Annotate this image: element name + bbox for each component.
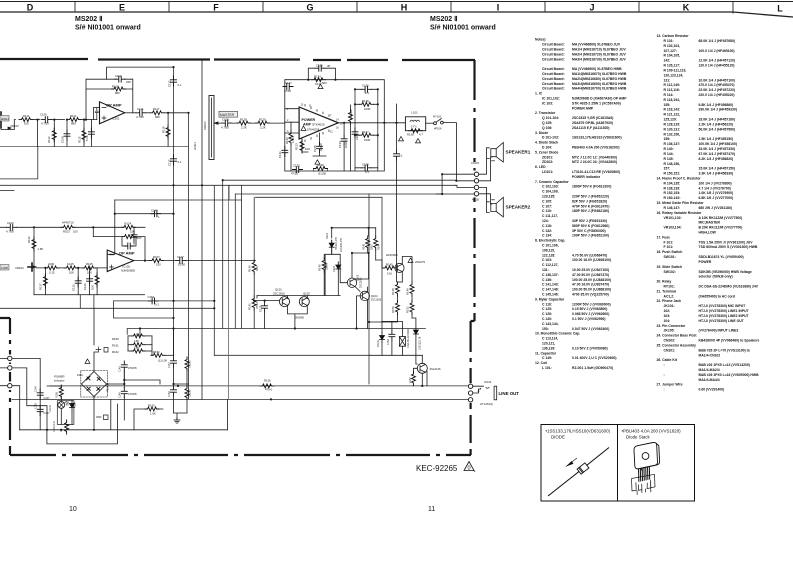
svg-text:R144: R144 bbox=[378, 243, 381, 250]
svg-text:0.068 50V J (VV062600): 0.068 50V J (VV062600) bbox=[572, 312, 609, 316]
wire ch2 plus input line bbox=[36, 267, 107, 269]
svg-text:C 138,137:: C 138,137: bbox=[542, 273, 559, 277]
wire bus y180 bbox=[223, 179, 457, 181]
svg-text:R 113,116:: R 113,116: bbox=[664, 88, 680, 92]
resistor R157 vertical bbox=[412, 372, 416, 386]
svg-text:HTJ-064(1): HTJ-064(1) bbox=[480, 402, 493, 406]
svg-text:680: 680 bbox=[155, 115, 160, 119]
svg-text:R129: R129 bbox=[259, 118, 266, 122]
svg-text:4700 35.0V (VQ225700): 4700 35.0V (VQ225700) bbox=[572, 293, 609, 297]
svg-text:22. Phone Jack: 22. Phone Jack bbox=[657, 299, 682, 303]
svg-text:POWER: POWER bbox=[302, 118, 316, 122]
wire -B bbox=[93, 397, 95, 430]
wire from power amp to L101 bbox=[384, 122, 405, 124]
pin leads left bbox=[285, 109, 299, 133]
wire ch1 ground bus bbox=[0, 145, 189, 147]
svg-text:100: 100 bbox=[24, 122, 29, 126]
svg-text:100: 100 bbox=[73, 230, 78, 234]
diode D101 vertical bbox=[329, 240, 334, 250]
svg-text:C129: C129 bbox=[356, 133, 359, 140]
right border dash-dot vertical bbox=[473, 60, 475, 321]
svg-text:POWER AMP: POWER AMP bbox=[572, 106, 594, 110]
resistor R115 vertical bbox=[83, 120, 85, 147]
wire to op-amp minus bbox=[91, 108, 99, 120]
svg-text:AMP: AMP bbox=[303, 123, 312, 127]
svg-text:5. Zener Diode: 5. Zener Diode bbox=[535, 150, 558, 154]
svg-text:R114: R114 bbox=[70, 114, 77, 118]
svg-text:C 149:: C 149: bbox=[542, 356, 552, 360]
wire output from apex bbox=[338, 122, 384, 124]
resistor R160 bbox=[128, 335, 131, 337]
ruler ticks bbox=[75, 2, 733, 14]
svg-text:6. LED: 6. LED bbox=[535, 165, 546, 169]
transistor Q105 bbox=[395, 263, 404, 272]
svg-text:27. Jumper Wire: 27. Jumper Wire bbox=[657, 383, 683, 387]
svg-text:R160: R160 bbox=[112, 337, 119, 341]
svg-text:18.0K 1/4 J (HF457180): 18.0K 1/4 J (HF457180) bbox=[699, 118, 736, 122]
resistor R117 bbox=[150, 111, 164, 115]
svg-text:1.0K: 1.0K bbox=[150, 412, 156, 416]
svg-text:C114: C114 bbox=[137, 107, 144, 111]
svg-text:NJM2068D D (XA667A30) OP AMP: NJM2068D D (XA667A30) OP AMP bbox=[572, 97, 627, 101]
warning triangle left bbox=[399, 137, 404, 141]
svg-text:2SC1815: 2SC1815 bbox=[360, 277, 363, 288]
svg-text:100P 50V J (FG652100): 100P 50V J (FG652100) bbox=[572, 234, 609, 238]
svg-text:MASTER: MASTER bbox=[220, 113, 235, 117]
svg-text:HTJ-0 (VV278300) MIC INPUT: HTJ-0 (VV278300) MIC INPUT bbox=[699, 304, 747, 308]
svg-text:1200P 50V J (VV060000): 1200P 50V J (VV060000) bbox=[572, 302, 611, 306]
svg-text:Diode Stack: Diode Stack bbox=[626, 435, 650, 440]
node junction x37.5 bbox=[37, 120, 39, 147]
svg-text:MA3/4(MK816690) XL67BEO HWB: MA3/4(MK816690) XL67BEO HWB bbox=[572, 82, 627, 86]
svg-text:18. Push Switch: 18. Push Switch bbox=[657, 250, 683, 254]
svg-text:100Ω/4W: 100Ω/4W bbox=[350, 109, 353, 120]
svg-text:26. Cable Kit: 26. Cable Kit bbox=[657, 358, 678, 362]
wire base line Q101 bbox=[254, 300, 279, 302]
svg-text:CN103: CN103 bbox=[471, 162, 479, 165]
bottom bracket view bbox=[632, 474, 656, 491]
svg-text:155:: 155: bbox=[664, 103, 671, 107]
minus mark sp1 bbox=[492, 160, 495, 162]
svg-text:16. Rotary Variable Resistor: 16. Rotary Variable Resistor bbox=[657, 211, 703, 215]
svg-text:120,123,124,: 120,123,124, bbox=[664, 73, 684, 77]
node x34 vertical bbox=[33, 227, 35, 294]
svg-text:MA1/4 (MK816710) XL67BEO JUV: MA1/4 (MK816710) XL67BEO JUV bbox=[572, 48, 626, 52]
svg-text:R 118,194,: R 118,194, bbox=[664, 98, 680, 102]
svg-text:6.8K: 6.8K bbox=[134, 340, 139, 343]
svg-text:C113: C113 bbox=[168, 80, 172, 87]
svg-text:R127: R127 bbox=[39, 283, 43, 290]
wire long vertical x174 bbox=[173, 67, 175, 356]
relay rail top bbox=[382, 321, 402, 336]
svg-text:6.8K 1/4 J (HF456860): 6.8K 1/4 J (HF456860) bbox=[699, 103, 734, 107]
svg-text:R156: R156 bbox=[264, 379, 271, 383]
resistor R111 bbox=[19, 118, 33, 122]
svg-text:Circuit Board:: Circuit Board: bbox=[542, 48, 565, 52]
svg-text:C 116:: C 116: bbox=[542, 302, 552, 306]
wire q3 q4 links bbox=[340, 253, 368, 329]
svg-text:MTZ J 24.0C 24: (VG442600): MTZ J 24.0C 24: (VG442600) bbox=[572, 160, 617, 164]
svg-text:R118: R118 bbox=[112, 85, 119, 89]
svg-text:680 2W J (VV261180): 680 2W J (VV261180) bbox=[699, 206, 732, 210]
svg-text:10K: 10K bbox=[87, 271, 92, 275]
svg-text:HTJ-0 (VV278300) LINE2 INPUT: HTJ-0 (VV278300) LINE2 INPUT bbox=[699, 314, 750, 318]
svg-text:R 104,105,: R 104,105, bbox=[664, 54, 681, 58]
svg-text:C 136:: C 136: bbox=[542, 278, 552, 282]
svg-text:R134: R134 bbox=[314, 75, 321, 79]
wire jack switch bbox=[473, 386, 489, 388]
resistor R133 vertical below triangle bbox=[302, 139, 308, 152]
svg-text:R117: R117 bbox=[153, 107, 160, 111]
svg-text:CDA-SS-224DMG: CDA-SS-224DMG bbox=[407, 328, 410, 348]
resistor R127b vertical bbox=[44, 268, 46, 295]
svg-text:D: D bbox=[27, 3, 34, 13]
capacitor C116 vertical bbox=[77, 268, 79, 295]
svg-text:R119: R119 bbox=[162, 126, 166, 133]
svg-text:12. Coil: 12. Coil bbox=[535, 361, 547, 365]
svg-text:100/50: 100/50 bbox=[189, 360, 192, 368]
svg-text:1SS133,176: 1SS133,176 bbox=[340, 238, 343, 252]
svg-text:Notes): Notes) bbox=[535, 38, 546, 42]
svg-text:10: 10 bbox=[69, 506, 77, 513]
svg-text:R161: R161 bbox=[112, 344, 119, 348]
svg-text:4P10A: 4P10A bbox=[434, 128, 442, 131]
svg-text:STK 4025-2 25W 1 (XC567A00): STK 4025-2 25W 1 (XC567A00) bbox=[572, 101, 621, 105]
power amp labels bbox=[278, 64, 371, 176]
svg-text:6.8K: 6.8K bbox=[134, 347, 139, 350]
svg-text:OP AMP: OP AMP bbox=[119, 251, 135, 256]
svg-text:L 101:: L 101: bbox=[542, 366, 552, 370]
wire q105 links bbox=[402, 257, 412, 283]
svg-text:B&B #26 1PX5 L=13 (VVS13200): B&B #26 1PX5 L=13 (VVS13200) bbox=[699, 363, 750, 367]
capacitor C148 vertical bbox=[173, 384, 175, 386]
svg-text:R 140:: R 140: bbox=[664, 147, 674, 151]
svg-text:100K: 100K bbox=[364, 138, 371, 142]
resistor R128 bbox=[237, 121, 251, 125]
svg-text:R148: R148 bbox=[391, 288, 395, 295]
svg-text:R141: R141 bbox=[248, 303, 252, 310]
resistor R113 vertical bbox=[53, 120, 55, 147]
transistor Q106 bbox=[417, 363, 427, 373]
resistor R149 vertical bbox=[410, 282, 414, 296]
svg-text:JK105:: JK105: bbox=[664, 329, 675, 333]
resistor R146v vertical bbox=[185, 357, 189, 371]
svg-text:47.00 16.0V (UJ837470): 47.00 16.0V (UJ837470) bbox=[572, 283, 609, 287]
wire mid rail bbox=[123, 380, 125, 388]
capacitor C147 vertical bbox=[171, 357, 177, 367]
capacitor C126 vertical bbox=[89, 268, 91, 295]
svg-text:680: 680 bbox=[115, 91, 120, 95]
svg-text:TSD 800mA 250V S (VV301300) HW: TSD 800mA 250V S (VV301300) HWB bbox=[699, 245, 758, 249]
svg-text:R 102,103,: R 102,103, bbox=[664, 44, 681, 48]
wire ch2 stage ground y295 bbox=[34, 295, 145, 308]
svg-text:2.2K: 2.2K bbox=[260, 126, 266, 130]
svg-text:F 101:: F 101: bbox=[664, 240, 674, 244]
wire connector to speaker2 brackets bbox=[480, 187, 493, 212]
svg-text:D101: D101 bbox=[326, 232, 329, 239]
junction dots bbox=[253, 227, 423, 387]
rail x396.5 with C139 bbox=[396, 104, 398, 282]
right border lower jog bbox=[471, 321, 475, 455]
junction dots ps bbox=[46, 327, 175, 431]
svg-text:indicator: indicator bbox=[54, 379, 65, 383]
diode drawing lead line bbox=[548, 448, 609, 497]
svg-text:0.1 50V J (VV062990): 0.1 50V J (VV062990) bbox=[572, 317, 606, 321]
svg-text:C116: C116 bbox=[72, 284, 76, 291]
svg-text:Circuit Board:: Circuit Board: bbox=[542, 77, 565, 81]
wire jack3 down bbox=[0, 358, 20, 429]
svg-text:STK4025: STK4025 bbox=[312, 123, 325, 127]
svg-text:AC1,2:: AC1,2: bbox=[664, 294, 675, 298]
svg-text:H: H bbox=[401, 3, 408, 13]
svg-text:33.0K 1/4 J (HF457330): 33.0K 1/4 J (HF457330) bbox=[699, 147, 736, 151]
resistor R127 bbox=[150, 259, 164, 263]
svg-text:C 111,117,: C 111,117, bbox=[542, 214, 558, 218]
wire indicator top bbox=[47, 386, 61, 388]
capacitor C131 on left edge bbox=[282, 147, 288, 157]
relay coil RY101 crossed box bbox=[399, 337, 405, 347]
svg-text:D 104:: D 104: bbox=[542, 146, 552, 150]
svg-text:IC 103:: IC 103: bbox=[542, 101, 553, 105]
svg-text:SPEAKER1: SPEAKER1 bbox=[506, 150, 531, 155]
svg-text:131:: 131: bbox=[542, 268, 549, 272]
svg-text:9.1K: 9.1K bbox=[387, 273, 392, 276]
svg-text:4700/35: 4700/35 bbox=[128, 367, 137, 370]
svg-text:LD101: LD101 bbox=[49, 404, 52, 412]
resistor R114 bbox=[67, 118, 81, 122]
svg-text:IC 101,102:: IC 101,102: bbox=[542, 97, 560, 101]
svg-text:0: 0 bbox=[467, 466, 470, 472]
svg-text:122,128:: 122,128: bbox=[542, 253, 555, 257]
svg-text:R152: R152 bbox=[153, 350, 160, 354]
svg-text:LOW: LOW bbox=[1, 266, 8, 270]
svg-text:R 136,137:: R 136,137: bbox=[664, 142, 681, 146]
svg-text:C146: C146 bbox=[119, 392, 122, 398]
svg-text:IC101: IC101 bbox=[112, 117, 120, 121]
svg-text:ZD101: ZD101 bbox=[377, 339, 380, 347]
svg-text:103:: 103: bbox=[664, 314, 671, 318]
transistor Q101 bbox=[280, 297, 290, 307]
diode D102 vertical bbox=[337, 261, 339, 263]
wire main supply bus y185 bbox=[0, 184, 455, 186]
wire bus y194 bbox=[235, 193, 442, 195]
svg-text:D102: D102 bbox=[67, 400, 70, 406]
wire long vertical x355 power rail bbox=[354, 89, 356, 171]
svg-text:•1SS133,176,HSS10(VD631600): •1SS133,176,HSS10(VD631600) bbox=[546, 429, 611, 434]
svg-text:4.7: 4.7 bbox=[419, 133, 423, 137]
wire ch2 c149 line bbox=[115, 213, 174, 215]
connector CN103 circles bbox=[474, 172, 478, 176]
svg-text:R 132,156,: R 132,156, bbox=[664, 132, 681, 136]
svg-text:VR101,102:: VR101,102: bbox=[664, 216, 682, 220]
svg-text:R158: R158 bbox=[56, 392, 59, 398]
svg-text:C127: C127 bbox=[315, 82, 322, 86]
svg-text:25. Connector Assembly: 25. Connector Assembly bbox=[657, 343, 697, 347]
capacitor C138 right bottom bbox=[361, 165, 371, 171]
wire top rail y227.8 bbox=[332, 228, 376, 236]
svg-text:C 140:: C 140: bbox=[542, 317, 552, 321]
diode stack body front face bbox=[634, 442, 658, 468]
svg-text:124:: 124: bbox=[542, 219, 549, 223]
svg-text:20. Relay: 20. Relay bbox=[657, 280, 672, 284]
svg-text:0.15: 0.15 bbox=[49, 271, 55, 275]
resistor R126 feedback bbox=[122, 235, 136, 239]
svg-text:R136: R136 bbox=[362, 99, 369, 103]
svg-text:POWER: POWER bbox=[699, 260, 712, 264]
resistor R131 inner vertical bbox=[350, 105, 352, 110]
op-amp U2 power amp triangle bbox=[299, 107, 338, 139]
svg-text:107,127:: 107,127: bbox=[664, 49, 677, 53]
svg-text:Q104: Q104 bbox=[371, 294, 378, 298]
svg-text:1SS133,176: 1SS133,176 bbox=[418, 336, 421, 350]
svg-text:R153: R153 bbox=[148, 404, 155, 408]
resistor R152 bbox=[151, 353, 165, 357]
svg-text:R 150,151:: R 150,151: bbox=[664, 172, 681, 176]
jack arrow bbox=[478, 388, 482, 392]
svg-text:100/50: 100/50 bbox=[189, 389, 192, 397]
wire top feed bbox=[352, 252, 369, 254]
wire connector loop left bbox=[436, 174, 474, 194]
svg-text:0.047: 0.047 bbox=[44, 397, 51, 400]
junction dots ch2 bbox=[33, 213, 216, 320]
wire bridge out right bbox=[107, 371, 125, 384]
svg-text:R140: R140 bbox=[248, 265, 252, 272]
pot MASTER slider body bbox=[209, 96, 214, 160]
diode stack package bbox=[632, 442, 660, 494]
connector AC1 bbox=[8, 356, 12, 360]
pot wiper arrow bbox=[214, 122, 218, 124]
resistor R148 vertical bbox=[398, 281, 403, 283]
inductor L101 box bbox=[405, 117, 425, 131]
svg-text:330.0K 1/4 J (HF459330): 330.0K 1/4 J (HF459330) bbox=[699, 108, 737, 112]
capacitor C136 right top bbox=[361, 86, 371, 92]
svg-text:VR103,104:: VR103,104: bbox=[664, 226, 682, 230]
svg-text:R 114:: R 114: bbox=[664, 93, 674, 97]
svg-text:2SA1115: 2SA1115 bbox=[430, 367, 442, 371]
svg-text:MTZ J 12.0C 12: (VG440300): MTZ J 12.0C 12: (VG440300) bbox=[572, 155, 617, 159]
resistor R151 vertical bbox=[410, 301, 414, 315]
resistor R122 on x34 bbox=[32, 237, 36, 251]
svg-text:11. Capacitor: 11. Capacitor bbox=[535, 351, 557, 355]
svg-text:C137: C137 bbox=[285, 81, 292, 85]
svg-text:HTJ-0 (VV278300) LINE1 INPUT: HTJ-0 (VV278300) LINE1 INPUT bbox=[699, 309, 750, 313]
speaker SP1 bbox=[491, 143, 504, 163]
connector JK104 circles bbox=[468, 384, 472, 388]
connector AC2 bbox=[8, 366, 12, 370]
svg-text:C148: C148 bbox=[168, 391, 171, 397]
svg-text:MS202 Ⅱ: MS202 Ⅱ bbox=[75, 15, 103, 23]
svg-text:2-T½: 2-T½ bbox=[411, 125, 417, 129]
capacitor C135 vertical bbox=[319, 133, 321, 143]
junction dots ch1 bbox=[36, 66, 189, 186]
svg-text:MS202 Ⅱ: MS202 Ⅱ bbox=[430, 15, 458, 23]
svg-text:129,135:: 129,135: bbox=[542, 195, 555, 199]
left border corner bbox=[0, 318, 10, 440]
wire q106 links bbox=[414, 355, 428, 386]
svg-text:6.8K 1/6 J (VV277000): 6.8K 1/6 J (VV277000) bbox=[699, 196, 734, 200]
op-amp IC101a triangle bbox=[100, 102, 125, 124]
svg-text:C133: C133 bbox=[293, 164, 300, 168]
svg-text:100.00 25.0V (UJ848100): 100.00 25.0V (UJ848100) bbox=[572, 278, 611, 282]
svg-text:1.0K 1/8 J (VV276900): 1.0K 1/8 J (VV276900) bbox=[699, 191, 734, 195]
wire c151 line bbox=[114, 300, 215, 302]
zener ZD101 vertical bbox=[381, 321, 383, 332]
resistor R141 vertical bbox=[253, 274, 255, 296]
diode stack 3d edge bbox=[640, 443, 659, 471]
svg-text:R143: R143 bbox=[362, 243, 365, 250]
wire rail y328.5 bbox=[127, 329, 425, 335]
svg-text:Circuit Board:: Circuit Board: bbox=[542, 57, 565, 61]
svg-text:12.0K 1/4 J (HF457120): 12.0K 1/4 J (HF457120) bbox=[699, 59, 736, 63]
wire input step bbox=[1, 120, 16, 130]
svg-text:R145: R145 bbox=[318, 264, 322, 271]
svg-text:HF40000: HF40000 bbox=[386, 253, 398, 257]
svg-text:R125: R125 bbox=[86, 262, 93, 266]
svg-text:J: J bbox=[589, 3, 594, 13]
resistor R103 bbox=[61, 225, 75, 229]
svg-text:C 132:: C 132: bbox=[542, 229, 552, 233]
svg-text:5.6K: 5.6K bbox=[85, 135, 89, 141]
svg-text:G: G bbox=[306, 3, 313, 13]
ruler band bottom edge bbox=[0, 12, 793, 17]
capacitor C124 vertical bbox=[133, 227, 135, 231]
diode D102b vertical bbox=[71, 400, 73, 402]
power amp outer box bbox=[285, 80, 385, 171]
svg-text:C131: C131 bbox=[278, 151, 282, 158]
capacitor C137 on left edge bbox=[283, 84, 293, 90]
svg-text:2.2K: 2.2K bbox=[241, 126, 247, 130]
svg-text:A 10K RK11Z/M (VV277500): A 10K RK11Z/M (VV277500) bbox=[699, 216, 743, 220]
svg-text:10K: 10K bbox=[91, 285, 95, 290]
svg-text:I: I bbox=[497, 3, 500, 13]
wire resistor bank frame bbox=[128, 329, 152, 356]
capacitor C109 bbox=[42, 117, 52, 123]
line out bracket bbox=[494, 386, 497, 400]
warning triangle bottom bbox=[315, 160, 320, 164]
svg-text:MA1/4(MK816670) XL67BEO HWB: MA1/4(MK816670) XL67BEO HWB bbox=[572, 72, 627, 76]
wire slider to power amp bbox=[218, 122, 285, 124]
svg-text:C134: C134 bbox=[338, 141, 342, 148]
wire bus y384 to line out bbox=[50, 385, 470, 387]
ch2 labels bbox=[0, 209, 185, 307]
svg-text:0.1: 0.1 bbox=[178, 160, 182, 164]
svg-text:R149: R149 bbox=[405, 288, 409, 295]
svg-text:1000P: 1000P bbox=[319, 143, 323, 151]
svg-text:R115: R115 bbox=[78, 136, 82, 143]
svg-text:HSS10,176: HSS10,176 bbox=[335, 237, 338, 250]
capacitor C121 inner vertical bbox=[343, 123, 345, 135]
capacitor C110 vertical bbox=[90, 120, 92, 147]
svg-text:R 118,143:: R 118,143: bbox=[664, 108, 681, 112]
svg-text:470-0: 470-0 bbox=[265, 388, 273, 392]
feedback box wires bbox=[86, 79, 133, 119]
svg-text:8. Electrolytic Cap.: 8. Electrolytic Cap. bbox=[535, 239, 565, 243]
svg-text:R132: R132 bbox=[285, 137, 289, 144]
svg-text:4.70 50.0V (UJ066470): 4.70 50.0V (UJ066470) bbox=[572, 253, 607, 257]
capacitor C145 electrolytic bbox=[121, 361, 127, 371]
svg-text:0.1: 0.1 bbox=[365, 91, 369, 95]
svg-text:RE: RE bbox=[60, 428, 63, 432]
svg-text:0.1: 0.1 bbox=[155, 303, 159, 307]
svg-text:67.0K 1/4 J (HF457470): 67.0K 1/4 J (HF457470) bbox=[699, 152, 736, 156]
wire ac1 right bbox=[13, 358, 40, 429]
svg-text:10.00 25.0V (UJ847100): 10.00 25.0V (UJ847100) bbox=[572, 268, 609, 272]
svg-text:150: 150 bbox=[130, 230, 135, 234]
svg-text:2.2K 1/4 J (HF456220): 2.2K 1/4 J (HF456220) bbox=[699, 123, 734, 127]
resistor R125 bbox=[82, 266, 96, 270]
svg-text:CN103:: CN103: bbox=[664, 339, 676, 343]
svg-text:R122: R122 bbox=[27, 236, 31, 243]
